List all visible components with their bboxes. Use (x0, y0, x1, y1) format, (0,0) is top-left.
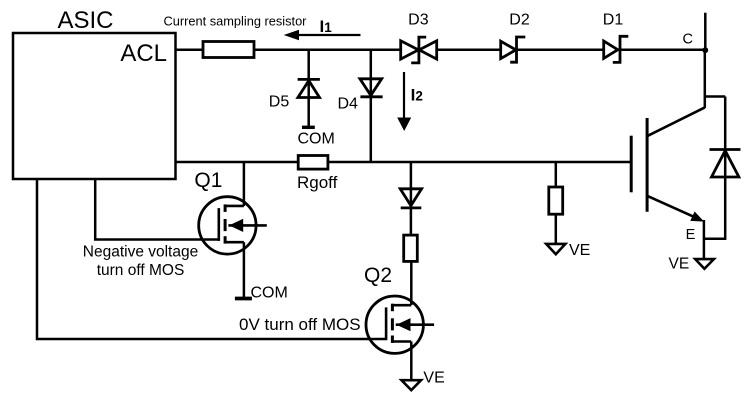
svg-text:VE: VE (423, 370, 444, 387)
wire emitter down (703, 220, 706, 260)
svg-text:Current sampling resistor: Current sampling resistor (164, 14, 308, 29)
wire Q2 branch from bus (410, 162, 413, 235)
svg-text:C: C (683, 31, 693, 47)
resistor (Q2 branch) (404, 235, 418, 261)
ground COM (under D5) (298, 127, 335, 147)
ground VE (emitter) (669, 256, 714, 273)
wire freewheel diode vertical (724, 97, 727, 239)
svg-text:ASIC: ASIC (57, 7, 113, 34)
wire D1 to node C (620, 48, 705, 51)
ground VE (under Q2) (402, 370, 445, 391)
svg-text:I2: I2 (411, 86, 423, 105)
wire mid resistor branch (555, 162, 558, 187)
diode (Q2 branch) (400, 189, 421, 208)
wire tee to freewheel diode top (705, 95, 725, 98)
svg-text:Rgoff: Rgoff (297, 173, 338, 192)
diode D1 (zener) (603, 12, 629, 63)
svg-text:Negative voltage: Negative voltage (83, 244, 198, 261)
svg-text:turn off MOS: turn off MOS (97, 262, 185, 279)
svg-text:Q2: Q2 (364, 264, 392, 287)
wire main lower bus (176, 161, 632, 164)
wire D5 branch vertical (307, 50, 310, 127)
wire sampling resistor to D3 (254, 48, 401, 51)
wire Q2 drain (410, 261, 413, 305)
wire ACL to sampling resistor (176, 48, 205, 51)
svg-text:D4: D4 (338, 96, 359, 113)
ASIC block (13, 7, 176, 179)
ground COM (under Q1) (235, 285, 288, 302)
wire collector top (704, 13, 707, 50)
wire collector (node C to IGBT) (704, 50, 707, 108)
svg-text:I1: I1 (320, 17, 333, 36)
label negative voltage turn off MOS (83, 244, 198, 280)
transistor IGBT (631, 107, 705, 221)
wire D3 to D2 (437, 48, 501, 51)
wire Q1 source (243, 242, 246, 298)
diode D5 (269, 79, 320, 110)
node C (683, 31, 709, 53)
svg-text:Q1: Q1 (194, 169, 222, 192)
wire Q1 gate stub from ASIC (95, 179, 219, 240)
transistor Q2 (MOSFET) (364, 264, 434, 353)
wire emitter to diode bottom (704, 238, 727, 241)
svg-text:0V turn off MOS: 0V turn off MOS (239, 315, 361, 334)
svg-text:VE: VE (669, 256, 690, 273)
wire D4 branch vertical (370, 50, 373, 162)
svg-text:ACL: ACL (120, 40, 167, 67)
diode D2 (zener) (501, 12, 530, 63)
svg-text:COM: COM (298, 131, 335, 148)
diode D4 (338, 79, 383, 113)
svg-text:COM: COM (251, 285, 288, 302)
svg-text:D3: D3 (408, 12, 429, 29)
svg-text:D2: D2 (509, 12, 530, 29)
svg-text:D5: D5 (269, 93, 290, 110)
transistor Q1 (MOSFET) (194, 169, 266, 254)
wire Q2 source (410, 342, 413, 381)
resistor (gate clamp to VE) (549, 187, 563, 214)
current arrow I2 (397, 72, 423, 131)
wire Q2 gate from ASIC (bottom run) (37, 179, 386, 339)
wire resistor to VE (555, 214, 558, 244)
wire D2 to D1 (517, 48, 604, 51)
current arrow I1 (284, 17, 361, 40)
diode freewheel (across IGBT) (710, 150, 741, 178)
diode D3 (bidirectional TVS) (401, 12, 437, 63)
svg-text:E: E (686, 227, 696, 243)
resistor Rgoff (297, 156, 338, 193)
svg-text:VE: VE (569, 242, 590, 259)
resistor R-sample (current sampling resistor) (164, 14, 308, 58)
wire Q1 drain (243, 162, 246, 206)
svg-text:D1: D1 (603, 12, 624, 29)
ground VE (mid) (546, 242, 590, 259)
